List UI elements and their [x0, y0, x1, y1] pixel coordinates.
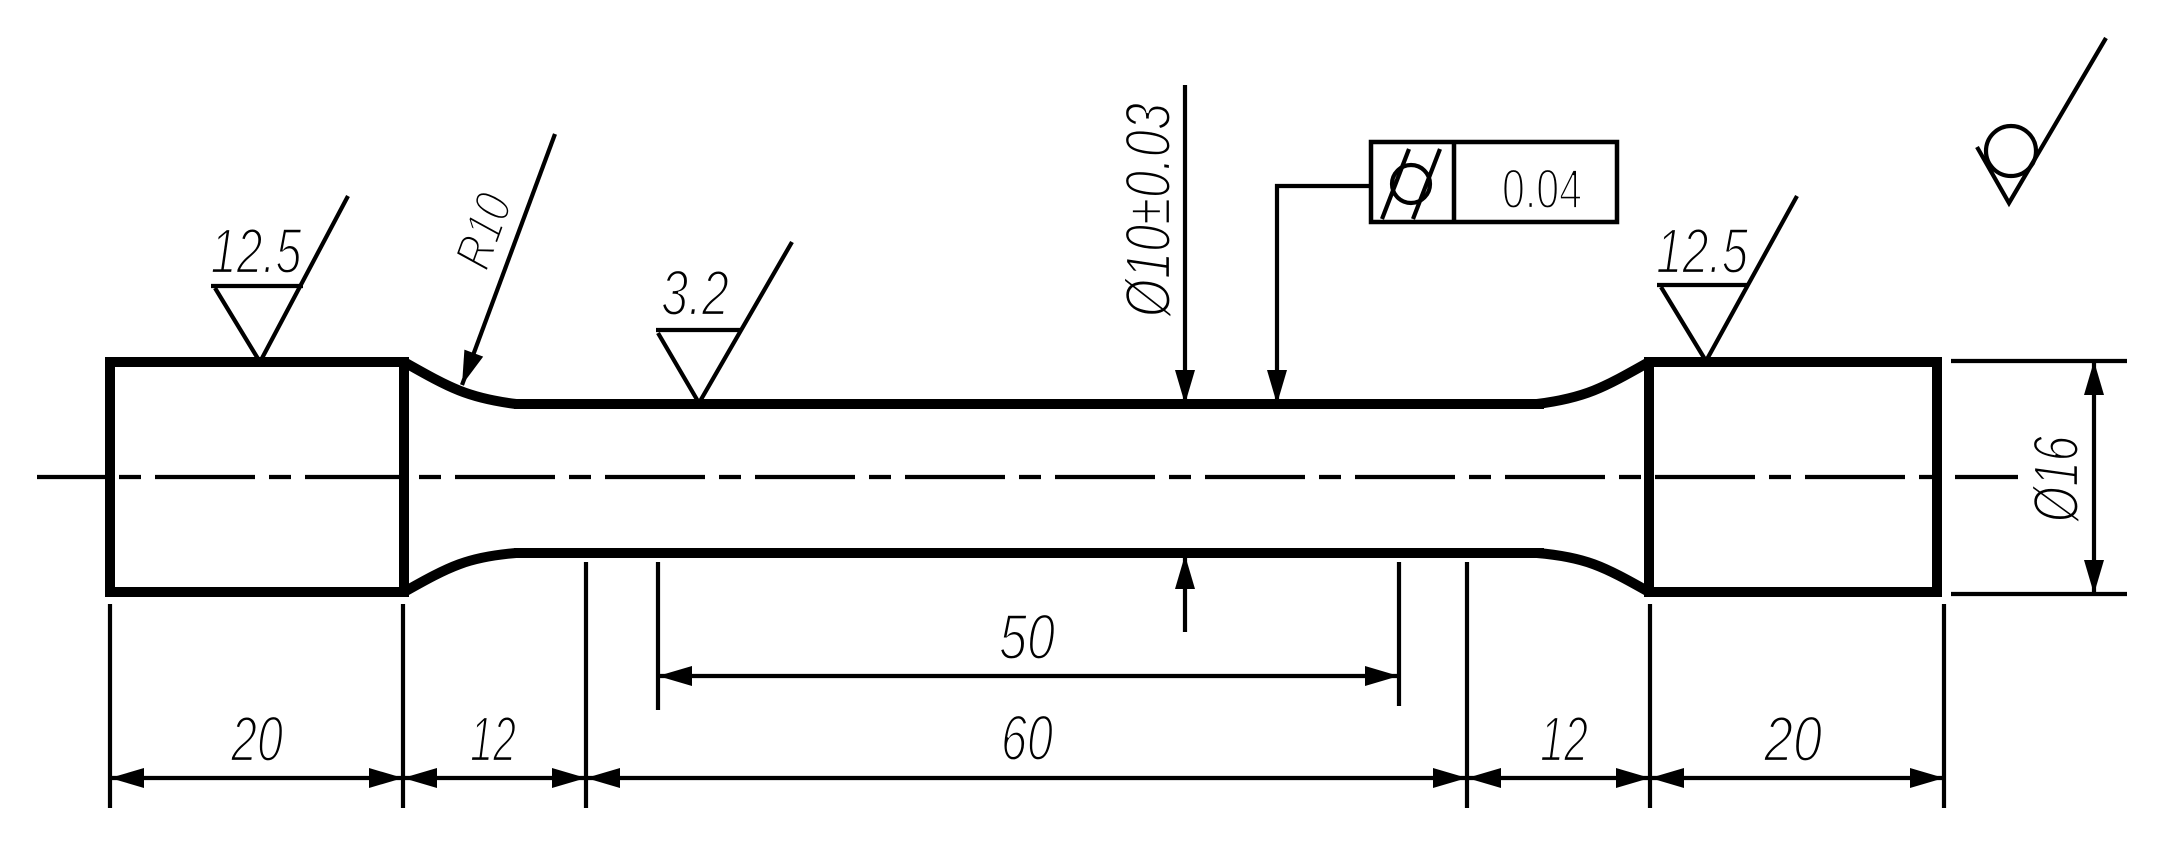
fillet bottom-left: [404, 553, 516, 592]
gauge section top surface: [514, 399, 1544, 409]
svg-text:12: 12: [470, 703, 516, 775]
cylindricity symbol left slanted line: [1382, 149, 1409, 219]
cylindricity symbol circle: [1392, 165, 1430, 203]
all-other-surfaces symbol check mark: [1977, 38, 2106, 203]
fillet top-right: [1537, 362, 1649, 404]
diameter 16 arrow bottom: [2084, 560, 2104, 594]
50 dimension extension line left: [656, 562, 660, 710]
cylindricity symbol right slanted line: [1413, 149, 1440, 219]
svg-text:20: 20: [230, 703, 283, 775]
surface finish symbol 12.5 (right block): [1661, 196, 1797, 361]
surface finish 12.5 right bar: [1657, 283, 1749, 287]
arrow at x=110 pointing left: [110, 768, 144, 788]
svg-text:50: 50: [999, 601, 1055, 673]
leader arrow (points down to gauge surface): [1267, 370, 1287, 404]
fillet bottom-right: [1537, 553, 1649, 592]
arrow at x=1944 pointing right: [1910, 768, 1944, 788]
arrow at x=1467 pointing left: [1467, 768, 1501, 788]
left grip block outline: [110, 362, 404, 592]
arrow at x=1467 pointing right: [1433, 768, 1467, 788]
gauge section bottom surface: [514, 548, 1544, 558]
R10 leader arrow: [462, 350, 483, 385]
50 dim arrow right: [1365, 666, 1399, 686]
50 dimension line: [658, 674, 1399, 678]
extension line at x=1944: [1942, 604, 1946, 808]
diameter 16 arrow top: [2084, 361, 2104, 395]
arrow at x=586 pointing left: [586, 768, 620, 788]
right grip block outline: [1649, 362, 1937, 592]
feature control frame box: [1371, 142, 1617, 222]
all-other-surfaces symbol (top right, circle + check): [1986, 126, 2036, 176]
diameter 16 extension lines: [1951, 359, 2127, 363]
extension line at x=110: [108, 604, 112, 808]
extension line at x=1650: [1648, 604, 1652, 808]
feature control frame divider: [1452, 142, 1457, 222]
svg-text:Ø16: Ø16: [2020, 436, 2092, 524]
arrow at x=403 pointing left: [403, 768, 437, 788]
svg-text:Ø10±0.03: Ø10±0.03: [1112, 103, 1184, 319]
diameter 10 dimension line upper: [1183, 85, 1187, 400]
surface finish symbol 3.2 (gauge section): [658, 242, 792, 403]
diameter 10 arrow lower (points up to gauge bottom surface): [1175, 555, 1195, 589]
diameter 10 dimension line lower: [1183, 558, 1187, 632]
50 dim arrow left: [658, 666, 692, 686]
svg-text:3.2: 3.2: [661, 257, 729, 329]
svg-text:60: 60: [1001, 702, 1053, 774]
feature control frame leader: [1277, 186, 1371, 400]
arrow at x=586 pointing right: [552, 768, 586, 788]
extension line at x=1467: [1465, 562, 1469, 808]
arrow at x=1650 pointing left: [1650, 768, 1684, 788]
svg-text:12: 12: [1540, 703, 1588, 775]
bottom dimension chain line: [110, 776, 1944, 780]
surface finish 12.5 left bar: [211, 284, 303, 288]
arrow at x=403 pointing right: [369, 768, 403, 788]
arrow at x=1650 pointing right: [1616, 768, 1650, 788]
svg-text:12.5: 12.5: [1656, 215, 1748, 287]
svg-text:0.04: 0.04: [1502, 157, 1582, 220]
50 dimension extension line right: [1397, 562, 1401, 706]
extension line at x=586: [584, 562, 588, 808]
surface finish symbol 12.5 (left block): [215, 196, 348, 362]
R10 leader line: [462, 134, 555, 385]
extension line at x=403: [401, 604, 405, 808]
diameter 10 arrow upper (points down to gauge surface): [1175, 370, 1195, 404]
centerline (axis of specimen): [37, 475, 2018, 479]
surface finish 3.2 bar: [656, 328, 742, 332]
fillet R10 top-left: [404, 362, 516, 404]
svg-text:12.5: 12.5: [211, 215, 302, 287]
diameter 16 dimension line: [2092, 361, 2096, 594]
svg-text:20: 20: [1763, 703, 1822, 775]
